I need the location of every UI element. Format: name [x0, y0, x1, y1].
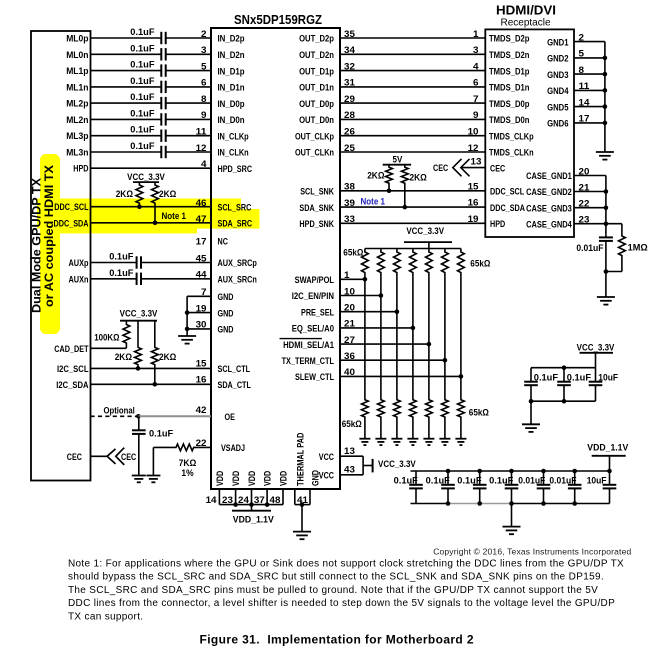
- wire VCC join: [362, 456, 364, 475]
- svg-text:3: 3: [473, 45, 479, 56]
- svg-text:VCC_3.3V: VCC_3.3V: [577, 343, 615, 354]
- svg-text:43: 43: [344, 465, 355, 476]
- junction HDMI_SEL/A1 / ladder: [427, 342, 432, 347]
- svg-text:1%: 1%: [181, 468, 194, 479]
- svg-text:IN_D1n: IN_D1n: [218, 83, 245, 94]
- resistor 65k&#937; pull-down (ladder col 4): [410, 398, 417, 439]
- wire HPD to HPD_SRC pin 4: [91, 167, 212, 169]
- DP159 retimer U1 (SNx5DP159RGZ) body: [211, 28, 340, 489]
- ground (bank1): [522, 424, 540, 432]
- svg-text:GND: GND: [218, 292, 234, 303]
- capacitor 0.1uF (AUXn AC coupling): [137, 273, 141, 285]
- ground (ladder col 4): [407, 439, 418, 445]
- wire CEC to HDMI pin 13: [461, 167, 485, 169]
- svg-text:OUT_D2p: OUT_D2p: [299, 34, 334, 45]
- resistor 2K&#937; pull-up (SDA_SNK): [401, 165, 408, 207]
- svg-text:TX_TERM_CTL: TX_TERM_CTL: [282, 356, 335, 367]
- junction ground bus: [603, 88, 608, 93]
- capacitor 0.1uF (core bypass): [473, 471, 487, 504]
- svg-text:ML1n: ML1n: [66, 82, 88, 93]
- svg-text:3: 3: [201, 45, 207, 56]
- wire bank1 top rail: [531, 367, 596, 369]
- wire OUT_D1n to TMDS_D1n: [340, 86, 485, 88]
- svg-text:CASE_GND3: CASE_GND3: [526, 203, 572, 214]
- svg-text:Note 1: Note 1: [361, 197, 386, 207]
- svg-text:EQ_SEL/A0: EQ_SEL/A0: [292, 324, 334, 335]
- svg-text:VCC_3.3V: VCC_3.3V: [406, 226, 444, 237]
- svg-text:7: 7: [473, 94, 479, 105]
- wire GND5 to ground bus: [574, 106, 605, 108]
- wire pad/GND bus: [295, 504, 310, 506]
- junction bank2 bottom rail: [446, 501, 451, 506]
- resistor 2K&#937; pull-up (SCL_SNK): [386, 165, 393, 191]
- capacitor 0.01uF (core bypass): [537, 471, 551, 504]
- svg-text:9: 9: [473, 110, 479, 121]
- wire SWAP/POL to ladder column: [340, 278, 365, 280]
- junction PRE_SEL / ladder: [395, 309, 400, 314]
- ground (VSADJ): [146, 476, 160, 483]
- svg-text:TMDS_CLKp: TMDS_CLKp: [489, 131, 534, 142]
- junction SDA_SNK / pull-up: [403, 205, 408, 210]
- svg-text:0.1uF: 0.1uF: [109, 252, 133, 263]
- wire GND1 to ground bus: [574, 41, 605, 43]
- ground (case): [597, 297, 615, 305]
- svg-text:5: 5: [201, 61, 207, 72]
- wire bank1 bottom rail: [531, 400, 596, 402]
- wire PRE_SEL to ladder column: [340, 311, 397, 313]
- svg-text:37: 37: [254, 495, 265, 506]
- svg-text:TX can support.: TX can support.: [68, 611, 143, 622]
- wire AUXn to coupling cap: [91, 278, 137, 280]
- svg-text:DDC lines from the connector,: DDC lines from the connector, a level sh…: [68, 598, 615, 609]
- wire VDD pin 37: [266, 489, 268, 505]
- resistor 65k&#937; pull-down (ladder col 6): [442, 398, 449, 439]
- wire CEC from source box: [91, 455, 108, 457]
- svg-text:10: 10: [468, 127, 479, 138]
- junction SLEW_CTL / ladder: [459, 374, 464, 379]
- svg-text:GND4: GND4: [547, 86, 569, 97]
- resistor 100K&#937; (CAD_DET): [123, 321, 130, 349]
- wire GND4 to ground bus: [574, 89, 605, 91]
- wire ML0n to coupling cap: [91, 53, 162, 55]
- resistor 2K&#937; pull-up (SCL_SRC): [136, 182, 143, 207]
- junction ground bus: [603, 104, 608, 109]
- svg-text:GND2: GND2: [547, 54, 568, 65]
- wire HPD_SNK to HPD (HDMI pin 19): [340, 222, 485, 224]
- resistor 65k&#937; pull-up (ladder col 2): [378, 249, 385, 399]
- svg-text:CEC: CEC: [433, 163, 448, 174]
- junction EQ_SEL/A0 / ladder: [411, 326, 416, 331]
- svg-text:0.01uF: 0.01uF: [576, 243, 603, 254]
- wire TX_TERM_CTL to ladder column: [340, 359, 445, 361]
- wire GND pin 19: [187, 312, 211, 314]
- svg-text:CEC: CEC: [490, 163, 505, 174]
- junction TX_TERM_CTL / ladder: [443, 358, 448, 363]
- svg-text:100KΩ: 100KΩ: [94, 333, 120, 344]
- junction bank1 top rail: [562, 365, 567, 370]
- wire ML2n to coupling cap: [91, 118, 162, 120]
- wire CASE_GND2 to case bus: [574, 191, 606, 193]
- wire case ground bus: [605, 176, 607, 235]
- svg-text:0.1uF: 0.1uF: [567, 372, 591, 383]
- svg-text:AUX_SRCp: AUX_SRCp: [218, 258, 257, 269]
- resistor 65k&#937; pull-down (ladder col 5): [426, 398, 433, 439]
- svg-text:VDD: VDD: [231, 471, 242, 486]
- svg-text:VCC_3.3V: VCC_3.3V: [378, 459, 416, 470]
- wire CASE_GND1 to case bus: [574, 175, 606, 177]
- svg-text:13: 13: [471, 157, 482, 168]
- junction SCL_SNK / pull-up: [387, 189, 392, 194]
- resistor 7K&#937; (VSADJ): [153, 444, 211, 451]
- wire 7K resistor to ground: [152, 447, 154, 475]
- svg-text:TMDS_D0p: TMDS_D0p: [489, 99, 530, 110]
- svg-text:IN_CLKn: IN_CLKn: [218, 148, 249, 159]
- svg-text:4: 4: [473, 61, 479, 72]
- svg-text:Optional: Optional: [104, 405, 135, 416]
- svg-text:42: 42: [196, 405, 207, 416]
- svg-text:0.1uF: 0.1uF: [130, 141, 154, 152]
- ground (ladder col 7): [455, 439, 466, 445]
- junction bank2 top rail: [477, 469, 482, 474]
- wire VDD pin 14: [218, 489, 220, 505]
- svg-text:SCL_SNK: SCL_SNK: [300, 187, 334, 198]
- svg-text:2KΩ: 2KΩ: [159, 189, 177, 200]
- svg-text:6: 6: [473, 78, 479, 89]
- wire AUXp to coupling cap: [91, 262, 137, 264]
- wire VDD pin 48: [282, 489, 284, 505]
- resistor 65k&#937; pull-down (ladder col 3): [394, 398, 401, 439]
- svg-text:DDC_SDA: DDC_SDA: [490, 203, 525, 214]
- overline on HDMI_SEL: [280, 338, 322, 340]
- svg-text:11: 11: [196, 127, 208, 138]
- wire cap to IN_D0p pin 8: [166, 102, 211, 104]
- svg-text:AUXn: AUXn: [69, 274, 89, 285]
- svg-text:19: 19: [468, 214, 479, 225]
- wire cap to IN_D2n pin 3: [166, 53, 211, 55]
- svg-text:44: 44: [196, 270, 208, 281]
- ground (OE cap): [132, 476, 146, 483]
- wire I2C_SCL to SCL_CTL pin 15: [91, 367, 212, 369]
- wire VDD pin 23: [235, 489, 237, 505]
- svg-text:12: 12: [196, 143, 207, 154]
- svg-text:OUT_D1n: OUT_D1n: [299, 83, 334, 94]
- resistor 65k&#937; pull-up (ladder col 6): [442, 249, 449, 399]
- capacitor 0.1uF (ML2p AC coupling): [161, 97, 165, 109]
- svg-text:should bypass the SCL_SRC and: should bypass the SCL_SRC and SDA_SRC bu…: [68, 572, 604, 583]
- capacitor 0.01uF (case ground): [599, 235, 613, 297]
- wire cap to AUX_SRCp pin 45: [141, 262, 211, 264]
- resistor 65k&#937; pull-down (ladder col 7): [458, 398, 465, 439]
- resistor 65k&#937; pull-up (ladder col 7): [458, 249, 465, 399]
- svg-text:30: 30: [196, 320, 207, 331]
- svg-text:17: 17: [196, 237, 207, 248]
- wire SDA_SNK to DDC_SDA (HDMI pin 16): [340, 206, 485, 208]
- svg-text:OUT_D0n: OUT_D0n: [299, 115, 334, 126]
- wire optional dashed to OE: [91, 415, 139, 417]
- capacitor 0.1uF (ML0p AC coupling): [161, 32, 165, 44]
- wire ML0p to coupling cap: [91, 37, 162, 39]
- svg-text:0.1uF: 0.1uF: [130, 92, 154, 103]
- svg-text:ML2p: ML2p: [66, 99, 88, 110]
- wire HDMI ground bus: [604, 42, 606, 152]
- wire cap to IN_CLKp pin 11: [166, 135, 211, 137]
- junction case bus pin 22: [604, 205, 609, 210]
- ground (chip GND pins): [178, 336, 196, 344]
- wire OUT_D0p to TMDS_D0p: [340, 102, 485, 104]
- wire ML2p to coupling cap: [91, 102, 162, 104]
- svg-text:45: 45: [196, 253, 208, 264]
- wire I2C_SDA to SDA_CTL pin 16: [91, 383, 212, 385]
- resistor 65k&#937; pull-up (ladder col 4): [410, 249, 417, 399]
- svg-text:0.1uF: 0.1uF: [130, 76, 154, 87]
- junction VDD bus pin 24: [249, 502, 254, 507]
- wire cap to IN_D1p pin 5: [166, 70, 211, 72]
- capacitor 0.01uF (core bypass): [568, 471, 582, 504]
- svg-text:65kΩ: 65kΩ: [342, 419, 362, 430]
- svg-text:1MΩ: 1MΩ: [628, 242, 648, 253]
- resistor 65k&#937; pull-down (ladder col 1): [362, 398, 369, 439]
- ground (HDMI GND pins): [596, 152, 614, 160]
- resistor 2K&#937; pull-up (I2C_SCL): [135, 321, 142, 369]
- capacitor 0.1uF (core bypass): [441, 471, 455, 504]
- junction GND bus / pin 30: [185, 327, 190, 332]
- svg-text:Receptacle: Receptacle: [500, 18, 550, 29]
- wire GND pin 41: [309, 489, 311, 505]
- wire VCC pin 13: [340, 455, 363, 457]
- svg-text:VDD: VDD: [279, 471, 290, 486]
- junction VDD bus pin 37: [265, 502, 270, 507]
- svg-text:TMDS_D1p: TMDS_D1p: [489, 66, 530, 77]
- wire GND2 to ground bus: [574, 57, 605, 59]
- wire OUT_D2n to TMDS_D2n: [340, 53, 485, 55]
- svg-text:7: 7: [201, 287, 207, 298]
- junction pad bus / ground: [300, 502, 305, 507]
- svg-text:AUXp: AUXp: [69, 258, 89, 269]
- wire EQ_SEL/A0 to ladder column: [340, 327, 413, 329]
- svg-text:TMDS_D1n: TMDS_D1n: [489, 83, 530, 94]
- resistor 2K&#937; pull-up (I2C_SDA): [151, 321, 158, 385]
- svg-text:10uF: 10uF: [587, 475, 607, 486]
- svg-text:VDD_1.1V: VDD_1.1V: [587, 442, 629, 453]
- svg-text:VCC: VCC: [319, 471, 334, 482]
- svg-text:ML2n: ML2n: [66, 115, 88, 126]
- wire GND6 to ground bus: [574, 122, 605, 124]
- svg-text:OUT_CLKn: OUT_CLKn: [295, 148, 334, 159]
- svg-text:47: 47: [196, 214, 207, 225]
- wire GND pin 30: [187, 328, 211, 330]
- junction ground bus: [603, 72, 608, 77]
- svg-text:CASE_GND2: CASE_GND2: [526, 187, 572, 198]
- wire OUT_CLKn to TMDS_CLKn: [340, 151, 485, 153]
- svg-text:Copyright © 2016, Texas Instru: Copyright © 2016, Texas Instruments Inco…: [433, 547, 631, 557]
- svg-text:GND5: GND5: [547, 102, 569, 113]
- svg-text:GND: GND: [218, 308, 234, 319]
- svg-text:13: 13: [344, 446, 355, 457]
- junction bank1 bottom rail: [562, 399, 567, 404]
- svg-text:23: 23: [222, 495, 233, 506]
- wire OUT_CLKp to TMDS_CLKp: [340, 135, 485, 137]
- wire ML1p to coupling cap: [91, 70, 162, 72]
- svg-text:5V: 5V: [393, 154, 403, 165]
- svg-text:0.1uF: 0.1uF: [130, 27, 154, 38]
- svg-text:DDC_SCL: DDC_SCL: [54, 202, 88, 213]
- svg-text:15: 15: [196, 359, 208, 370]
- svg-text:HPD: HPD: [490, 219, 505, 230]
- junction case bus / 1M resistor: [604, 269, 609, 274]
- svg-text:0.1uF: 0.1uF: [130, 125, 154, 136]
- svg-text:IN_D2n: IN_D2n: [218, 50, 245, 61]
- svg-text:SNx5DP159RGZ: SNx5DP159RGZ: [234, 13, 322, 27]
- ground (ladder col 1): [359, 439, 370, 445]
- junction bank2 bottom rail: [509, 501, 514, 506]
- wire DDC_SDA to SDA_SRC pin 47: [91, 222, 212, 224]
- wire GND3 to ground bus: [574, 73, 605, 75]
- svg-text:9: 9: [201, 110, 207, 121]
- wire thermal pad pin: [294, 489, 296, 505]
- wire VDD pin 24: [251, 489, 253, 505]
- svg-text:OUT_D2n: OUT_D2n: [299, 50, 334, 61]
- svg-text:16: 16: [196, 374, 207, 385]
- junction DDC_SCL / pull-up: [137, 204, 142, 209]
- resistor 65k&#937; pull-up (ladder col 5): [426, 249, 433, 399]
- svg-text:SDA_SRC: SDA_SRC: [218, 219, 253, 230]
- svg-text:HPD_SNK: HPD_SNK: [299, 219, 334, 230]
- svg-text:0.1uF: 0.1uF: [394, 475, 418, 486]
- wire ML3p to coupling cap: [91, 135, 162, 137]
- svg-text:0.1uF: 0.1uF: [130, 43, 154, 54]
- svg-text:2KΩ: 2KΩ: [367, 171, 385, 182]
- svg-text:Note 1: For applications where: Note 1: For applications where the GPU o…: [68, 559, 624, 570]
- ground (ladder col 3): [391, 439, 402, 445]
- wire bank2 bottom rail: [411, 503, 449, 505]
- highlight: band over DDC_SCL row: [37, 199, 241, 210]
- highlight: band over DDC_SDA row: [37, 209, 260, 229]
- resistor 65k&#937; pull-up (ladder col 3): [394, 249, 401, 399]
- ground (bank2): [503, 527, 521, 535]
- svg-text:SDA_CTL: SDA_CTL: [218, 380, 251, 391]
- svg-text:or AC coupled HDMI TX: or AC coupled HDMI TX: [44, 165, 56, 307]
- svg-text:HDMI/DVI: HDMI/DVI: [496, 4, 556, 18]
- wire bank2 top rail: [411, 470, 610, 472]
- svg-text:HPD: HPD: [73, 164, 88, 175]
- junction bank2 top rail: [509, 469, 514, 474]
- svg-text:OUT_D0p: OUT_D0p: [299, 99, 334, 110]
- wire cap to AUX_SRCn pin 44: [141, 278, 211, 280]
- svg-text:PRE_SEL: PRE_SEL: [301, 307, 334, 318]
- wire OUT_D0n to TMDS_D0n: [340, 118, 485, 120]
- svg-text:NC: NC: [218, 237, 228, 248]
- svg-text:DDC_SCL: DDC_SCL: [490, 187, 524, 198]
- svg-text:IN_CLKp: IN_CLKp: [218, 131, 249, 142]
- svg-text:CAD_DET: CAD_DET: [54, 344, 88, 355]
- svg-text:VDD: VDD: [263, 471, 274, 486]
- svg-text:10uF: 10uF: [598, 372, 618, 383]
- svg-text:14: 14: [206, 495, 218, 506]
- capacitor 10uF (VCC_3.3V bypass): [589, 368, 603, 402]
- wire VDD bus: [219, 504, 283, 506]
- svg-text:VCC: VCC: [319, 452, 334, 463]
- wire I2C_EN/PIN to ladder column: [340, 295, 381, 297]
- capacitor 0.1uF (OE): [132, 416, 146, 475]
- wire OE pin 42: [138, 415, 211, 417]
- svg-text:8: 8: [201, 94, 207, 105]
- svg-text:CEC: CEC: [67, 452, 82, 463]
- svg-text:CASE_GND1: CASE_GND1: [526, 171, 572, 182]
- junction DDC_SDA / pull-up: [153, 221, 158, 226]
- junction bank1 bottom rail left: [529, 399, 534, 404]
- svg-text:I2C_SDA: I2C_SDA: [56, 380, 88, 391]
- GPU/DP TX source box: [31, 31, 91, 481]
- svg-text:HPD_SRC: HPD_SRC: [218, 164, 253, 175]
- ground (ladder col 5): [423, 439, 434, 445]
- svg-text:0.1uF: 0.1uF: [426, 475, 450, 486]
- svg-text:OUT_D1p: OUT_D1p: [299, 66, 334, 77]
- wire GND bus: [186, 296, 188, 336]
- supply tick VCC_3.3V: [372, 459, 374, 473]
- junction case bus pin 21: [604, 189, 609, 194]
- svg-text:2KΩ: 2KΩ: [116, 189, 134, 200]
- svg-text:SWAP/POL: SWAP/POL: [295, 275, 335, 286]
- svg-text:ML3n: ML3n: [66, 148, 88, 159]
- svg-text:TMDS_CLKn: TMDS_CLKn: [489, 148, 534, 159]
- svg-text:0.1uF: 0.1uF: [109, 268, 133, 279]
- wire DDC_SCL to SCL_SRC pin 46: [91, 206, 212, 208]
- svg-text:65kΩ: 65kΩ: [469, 408, 489, 419]
- resistor 65k&#937; pull-down (ladder col 2): [378, 398, 385, 439]
- wire ML1n to coupling cap: [91, 86, 162, 88]
- svg-text:VSADJ: VSADJ: [221, 443, 245, 454]
- capacitor 0.1uF (ML3p AC coupling): [161, 130, 165, 142]
- svg-text:0.1uF: 0.1uF: [489, 475, 513, 486]
- wire cap to IN_D2p pin 2: [166, 37, 211, 39]
- junction bank2 top rail: [446, 469, 451, 474]
- svg-text:DDC_SDA: DDC_SDA: [54, 218, 89, 229]
- svg-text:ML0n: ML0n: [66, 50, 88, 61]
- svg-text:THERMAL PAD: THERMAL PAD: [295, 433, 306, 486]
- svg-text:GND: GND: [218, 325, 234, 336]
- highlight: vertical stripe over rotated text: [40, 154, 60, 334]
- capacitor 0.1uF (core bypass): [409, 471, 423, 504]
- capacitor 0.1uF (VCC_3.3V bypass): [524, 368, 538, 402]
- svg-text:12: 12: [468, 143, 479, 154]
- svg-text:CEC: CEC: [121, 452, 136, 463]
- junction I2C_EN/PIN / ladder: [379, 293, 384, 298]
- svg-text:SCL_CTL: SCL_CTL: [218, 364, 251, 375]
- resistor 1M&#937; (case ground): [606, 223, 622, 225]
- ground (ladder col 2): [375, 439, 386, 445]
- svg-text:0.1uF: 0.1uF: [130, 60, 154, 71]
- svg-text:The SCL_SRC and SDA_SRC pins m: The SCL_SRC and SDA_SRC pins must be pul…: [68, 585, 598, 596]
- wire ML3n to coupling cap: [91, 151, 162, 153]
- wire cap to IN_CLKn pin 12: [166, 151, 211, 153]
- svg-text:Figure 31. Implementation for: Figure 31. Implementation for Motherboar…: [200, 633, 474, 647]
- svg-text:0.1uF: 0.1uF: [149, 429, 173, 440]
- wire HDMI_SEL/A1 to ladder column: [340, 343, 429, 345]
- svg-text:6: 6: [201, 78, 207, 89]
- svg-text:4: 4: [201, 159, 207, 170]
- junction I2C_SDA / pull-up: [153, 382, 158, 387]
- capacitor 0.1uF (ML0n AC coupling): [161, 48, 165, 60]
- HDMI/DVI receptacle J1 body: [485, 29, 574, 237]
- svg-text:AUX_SRCn: AUX_SRCn: [218, 275, 257, 286]
- junction bank2 top rail: [607, 469, 612, 474]
- connector symbol CEC (right chevrons): [453, 159, 470, 176]
- junction bank2 bottom rail: [541, 501, 546, 506]
- svg-text:I2C_SCL: I2C_SCL: [57, 364, 89, 375]
- wire OUT_D2p to TMDS_D2p: [340, 37, 485, 39]
- svg-text:VDD_1.1V: VDD_1.1V: [233, 515, 275, 526]
- junction bank2 bottom rail: [477, 501, 482, 506]
